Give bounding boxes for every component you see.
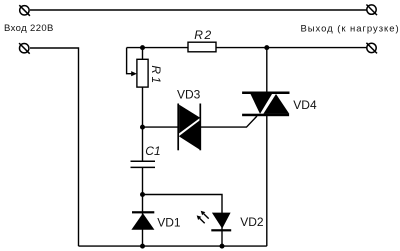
wire C1 to VD1 and bottom rail [142, 168, 144, 246]
wire top rail [30, 9, 367, 11]
svg-text:VD3: VD3 [177, 87, 201, 101]
svg-text:Вход 220В: Вход 220В [4, 23, 54, 34]
terminal input L1 [19, 5, 30, 16]
wire node to VD3 left [143, 126, 178, 128]
wire right rail top (to VD4) [266, 48, 268, 93]
svg-text:C1: C1 [145, 144, 160, 158]
wire main column R1 to C1 [142, 48, 144, 161]
potentiometer R1 [131, 59, 148, 87]
wire from input terminal 2 to left rail [30, 48, 79, 246]
diode VD1 [131, 211, 154, 230]
node C (C1/VD1 junction) [140, 192, 145, 197]
wire VD3 right to VD4 gate [201, 116, 257, 127]
capacitor C1 [131, 161, 156, 167]
node F (VD2 bottom) [220, 244, 225, 249]
resistor R2 [188, 42, 216, 52]
diac VD3 [178, 104, 200, 151]
svg-text:VD4: VD4 [293, 98, 317, 112]
wire right rail bottom (VD4 to bottom rail) [266, 115, 268, 246]
LED VD2 [197, 211, 232, 232]
svg-text:VD2: VD2 [240, 215, 264, 229]
terminal input L2 [19, 43, 30, 54]
node E (VD1 bottom) [140, 244, 145, 249]
svg-text:R1: R1 [149, 65, 163, 85]
wire R2 to right rail and output terminal [216, 47, 367, 49]
svg-text:Выход (к нагрузке): Выход (к нагрузке) [300, 24, 399, 35]
svg-text:VD1: VD1 [157, 216, 181, 230]
terminal output R1 [366, 5, 377, 16]
wire bottom rail [79, 245, 267, 247]
node B (VD3 junction) [140, 125, 145, 130]
svg-text:R2: R2 [194, 28, 212, 42]
triac VD4 [242, 92, 289, 117]
wire second row to R2 [127, 47, 188, 49]
node D (R2 / VD4 junction) [264, 45, 269, 50]
wire R1 wiper arm [127, 48, 132, 74]
wire branch row to VD2 [143, 195, 223, 247]
terminal output R2 [366, 43, 377, 54]
node A (R1 top junction) [140, 45, 145, 50]
